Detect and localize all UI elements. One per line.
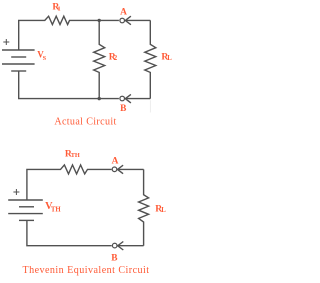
svg-text:TH: TH	[71, 152, 80, 159]
svg-text:A: A	[112, 157, 119, 167]
svg-text:B: B	[111, 254, 117, 264]
svg-text:B: B	[120, 104, 126, 114]
svg-text:S: S	[43, 55, 47, 62]
svg-text:L: L	[161, 207, 166, 214]
svg-text:Thevenin Equivalent Circuit: Thevenin Equivalent Circuit	[22, 265, 149, 276]
svg-text:A: A	[120, 7, 127, 17]
svg-text:TH: TH	[51, 206, 62, 213]
svg-text:2: 2	[114, 55, 118, 62]
svg-text:Actual Circuit: Actual Circuit	[54, 117, 116, 128]
svg-text:1: 1	[57, 5, 60, 12]
svg-text:L: L	[167, 55, 172, 62]
